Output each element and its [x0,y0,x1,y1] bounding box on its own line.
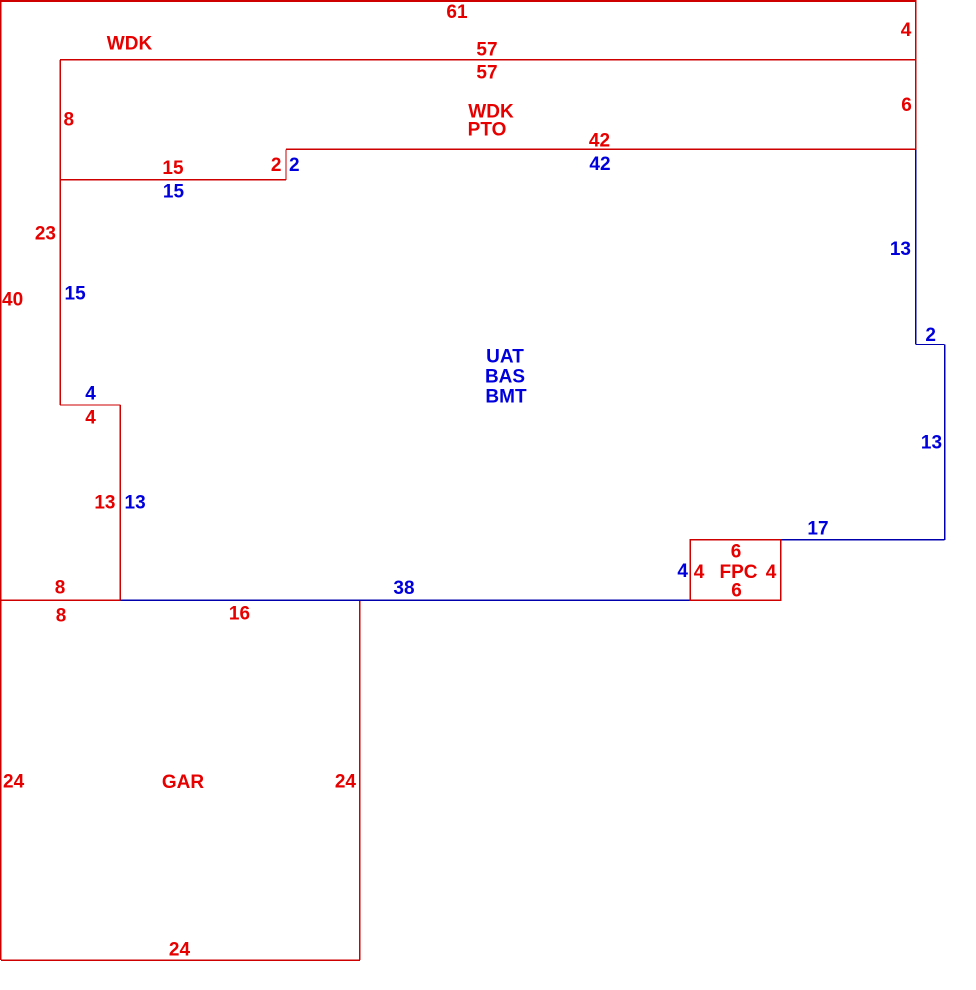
svg-text:BAS: BAS [485,367,525,388]
wall 4-ft jog y=405 [60,404,120,406]
svg-text:8: 8 [56,606,67,627]
svg-text:15: 15 [163,182,185,203]
svg-text:8: 8 [55,578,66,599]
svg-text:4: 4 [901,20,912,41]
svg-text:4: 4 [766,562,777,583]
svg-text:13: 13 [890,239,911,260]
wall BAS 17-line y=540 (blue) [781,539,945,541]
svg-text:13: 13 [921,433,942,454]
svg-text:2: 2 [271,155,282,176]
wall 42-line y=149 [286,148,916,150]
svg-text:17: 17 [807,519,828,540]
wall BAS 2-ft step y=344.5 (blue) [916,344,945,346]
wall 2-ft step x=286 [285,149,287,180]
svg-text:WDK: WDK [107,34,153,55]
porch FPC outline [690,540,780,600]
wall inner vertical x=120 (13 ft) [119,405,121,600]
svg-text:57: 57 [476,40,497,61]
svg-text:24: 24 [3,772,25,793]
wall 57-line between WDK and PTO [60,59,916,61]
svg-text:6: 6 [901,95,912,116]
svg-text:4: 4 [694,562,705,583]
svg-text:4: 4 [85,408,96,429]
svg-text:15: 15 [162,158,184,179]
svg-text:42: 42 [589,131,610,152]
wall BAS 38-line y=600 (blue) [120,599,690,601]
wall left inner vertical x=60 (8 / 23 ft) [59,60,61,405]
svg-text:42: 42 [589,154,610,175]
svg-text:BMT: BMT [485,386,527,407]
svg-text:57: 57 [476,63,497,84]
svg-text:24: 24 [335,772,357,793]
svg-text:16: 16 [229,604,250,625]
svg-text:2: 2 [289,155,300,176]
wall GAR right edge x=360 [359,600,361,960]
svg-text:PTO: PTO [468,120,507,141]
svg-text:UAT: UAT [486,347,524,368]
wall GAR bottom edge y=960 [1,959,360,961]
svg-text:2: 2 [925,325,936,346]
wall GAR top edge y=600 [1,599,360,601]
svg-text:15: 15 [65,284,87,305]
svg-text:13: 13 [125,493,146,514]
wall 15-line y=180 [60,179,286,181]
svg-text:8: 8 [64,110,75,131]
svg-text:4: 4 [85,384,96,405]
wall WDK/PTO right edge (4+6 ft) [915,1,917,150]
svg-text:4: 4 [677,561,688,582]
svg-text:13: 13 [94,493,115,514]
svg-text:40: 40 [2,290,23,311]
wall BAS right upper x=916 (13 ft, blue) [915,149,917,344]
svg-text:61: 61 [446,2,468,23]
svg-text:38: 38 [393,578,414,599]
svg-text:6: 6 [731,581,742,602]
wall outer left border (40 + 24 ft) [0,1,2,960]
wall BAS right lower x=944.5 (13 ft, blue) [944,345,946,540]
svg-text:23: 23 [35,224,56,245]
svg-text:24: 24 [169,940,191,961]
svg-text:GAR: GAR [162,772,205,793]
svg-text:6: 6 [731,542,742,563]
wall WDK top edge (61 ft) [0,0,917,2]
